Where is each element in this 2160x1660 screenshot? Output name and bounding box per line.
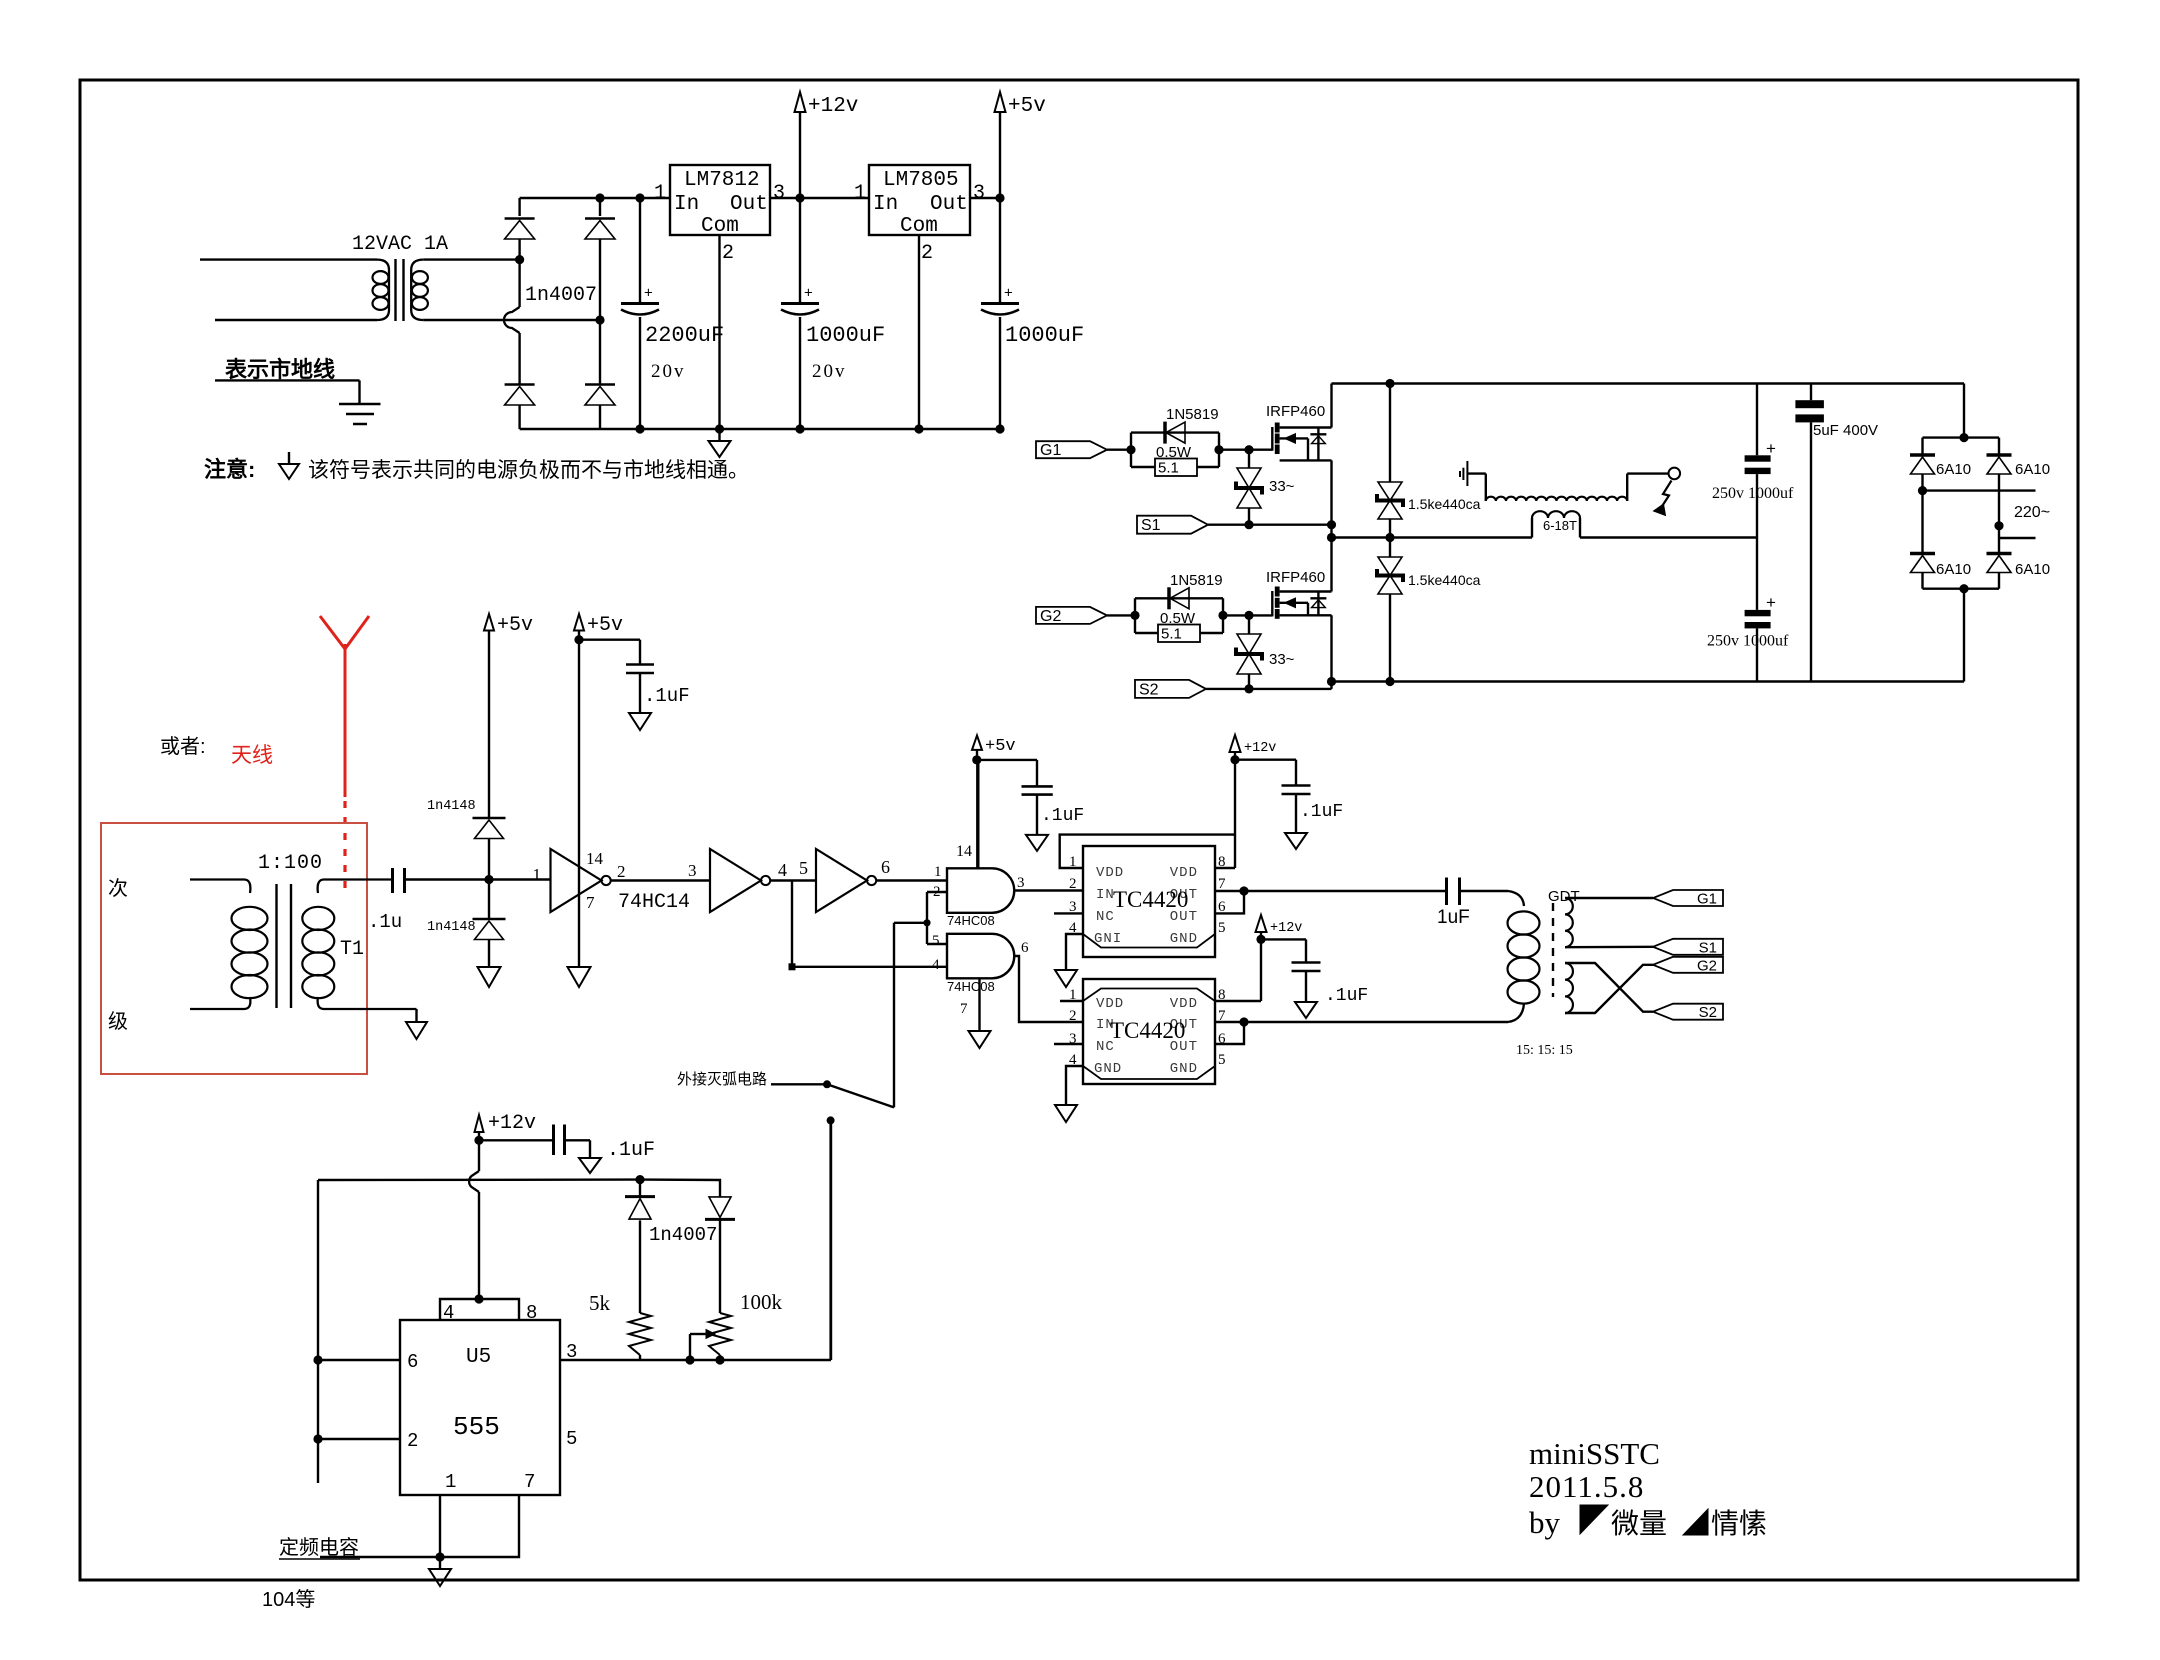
svg-text:6A10: 6A10 (1936, 561, 1971, 578)
svg-text:+5v: +5v (497, 614, 533, 637)
pin 3 output (560, 1359, 831, 1361)
svg-text:1: 1 (934, 864, 942, 880)
555 ground arrow (439, 1557, 441, 1569)
svg-text:4: 4 (932, 957, 940, 973)
svg-text:220~: 220~ (2014, 504, 2050, 521)
svg-text:by: by (1529, 1505, 1561, 1540)
gate network 2: 1N5819 parallel 5.1 (1135, 572, 1223, 643)
svg-text:1.5ke440ca: 1.5ke440ca (1408, 496, 1481, 512)
svg-text:IRFP460: IRFP460 (1266, 569, 1325, 586)
svg-text:+: + (1766, 593, 1776, 612)
svg-text:5: 5 (566, 1428, 577, 1450)
wire AC input bottom lead (215, 319, 377, 321)
svg-text:250v 1000uf: 250v 1000uf (1712, 485, 1794, 502)
svg-text:.1uF: .1uF (607, 1139, 655, 1162)
node bottom rail start (1327, 677, 1336, 686)
svg-text:VDD: VDD (1096, 996, 1124, 1012)
U7 pin4 gnd (1066, 1066, 1083, 1105)
regulator U2 LM7805 (869, 165, 970, 235)
node gate network 2 right (1218, 611, 1227, 620)
wire LM7812 com to ground rail (718, 235, 720, 429)
TVS 1.5ke440ca upper (1389, 384, 1391, 483)
inverter U3C (816, 849, 867, 912)
bridge rectifier right column (599, 198, 601, 216)
node S2/TVS (1244, 684, 1253, 693)
node +12v rail (795, 193, 804, 202)
wire S1 (1208, 524, 1332, 526)
svg-text:2200uF: 2200uF (645, 323, 724, 348)
node S1/TVS (1244, 520, 1253, 529)
bypass ground arrow (629, 713, 651, 730)
svg-text:1: 1 (445, 1471, 456, 1493)
wire to MOSFET Q2 gate (1223, 614, 1272, 616)
capacitor .1uF 555 bypass (479, 1125, 655, 1163)
svg-text:6A10: 6A10 (1936, 461, 1971, 478)
power arrow +5v clamp rail (484, 614, 494, 631)
svg-text:3: 3 (566, 1341, 577, 1363)
wire 555 left feedback vertical (317, 1180, 319, 1483)
svg-text:+5v: +5v (985, 737, 1016, 756)
GDT secondary 2 (1565, 963, 1573, 1013)
svg-text:5.1: 5.1 (1161, 626, 1182, 643)
pin 6 stub (318, 1359, 400, 1361)
capacitor C1 2200uF 20v (639, 198, 641, 304)
svg-text:LM7812: LM7812 (684, 169, 760, 192)
svg-text:GDT: GDT (1548, 888, 1580, 905)
svg-text:5uF 400V: 5uF 400V (1813, 422, 1878, 439)
svg-text:5: 5 (1218, 920, 1226, 936)
svg-text:6A10: 6A10 (2015, 461, 2050, 478)
svg-text:104等: 104等 (262, 1588, 315, 1611)
node mid rail (1327, 533, 1336, 542)
wire DC- bottom rail (520, 428, 1000, 430)
svg-text:100k: 100k (740, 1290, 783, 1314)
driver U6 TC4420 (1083, 846, 1215, 957)
capacitor bank vertical (1756, 384, 1758, 456)
svg-text:U5: U5 (466, 1346, 491, 1369)
svg-text:6-18T: 6-18T (1543, 518, 1577, 533)
diode 6A10 upper-right (1998, 438, 2000, 454)
tesla secondary ground (1460, 461, 1486, 501)
svg-text:250v 1000uf: 250v 1000uf (1707, 633, 1789, 650)
svg-text:4: 4 (443, 1302, 454, 1324)
74HC08 gnd wire (978, 978, 980, 1031)
wire HV bottom rail (1332, 680, 1965, 682)
svg-text:VDD: VDD (1096, 865, 1124, 881)
U7 internal vdd link (1083, 989, 1215, 1002)
U6 pin8 stub (1215, 867, 1235, 869)
svg-text:NC: NC (1096, 909, 1115, 925)
svg-text:5k: 5k (589, 1291, 611, 1315)
wire up to gates (893, 923, 895, 1108)
node gate network 2 left (1130, 611, 1139, 620)
svg-text:+12v: +12v (488, 1112, 536, 1135)
diode 6A10 lower-left (1910, 552, 1935, 556)
svg-text:VDD: VDD (1170, 865, 1198, 881)
GDT core dashed (1552, 903, 1554, 997)
wire to MOSFET Q1 gate (1219, 449, 1272, 451)
pickup box (red) (101, 823, 367, 1074)
node secondary top / bridge left mid (515, 255, 524, 264)
svg-text:6A10: 6A10 (2015, 561, 2050, 578)
power arrow +5v 74HC08 (972, 735, 982, 750)
svg-text:5: 5 (1218, 1052, 1226, 1068)
555 bottom gnd connector (440, 1495, 519, 1557)
svg-text:1n4007: 1n4007 (525, 284, 597, 307)
diode D2 top-right 1n4007 (585, 217, 615, 220)
svg-text:6: 6 (881, 857, 890, 877)
svg-text:.1uF: .1uF (1325, 986, 1368, 1006)
svg-text:1n4148: 1n4148 (427, 799, 476, 814)
svg-text:33~: 33~ (1269, 478, 1295, 495)
74HC14 ground arrow (568, 967, 591, 987)
capacitor C3 1000uF (999, 112, 1001, 304)
pin 2 stub (318, 1438, 400, 1440)
tesla secondary coil (1486, 497, 1627, 501)
node vcc cap branch (574, 635, 583, 644)
capacitor .1uF (74HC08 bypass) (977, 760, 1084, 835)
node 555 vcc (474, 1136, 483, 1145)
wire LM7805 com (918, 235, 920, 429)
U7 pin2 input from gate2 (1014, 956, 1083, 1022)
svg-text:1: 1 (533, 865, 542, 884)
U6 pin4 gnd (1066, 934, 1083, 970)
svg-text:7: 7 (960, 1001, 968, 1017)
diode D4 bottom-right 1n4007 (585, 383, 615, 386)
svg-text:7: 7 (1218, 876, 1226, 892)
tag G2 input (1036, 607, 1107, 624)
U6 pin7 out (1215, 890, 1244, 892)
svg-text:GND: GND (1170, 931, 1198, 947)
svg-text:1: 1 (854, 182, 866, 205)
U7 internal gnd link (1083, 1066, 1215, 1079)
svg-text:GND: GND (1094, 1061, 1122, 1077)
svg-text:+12v: +12v (1244, 741, 1276, 756)
node TVS chain mid (1385, 533, 1394, 542)
U7 pin3 nc stub (1054, 1043, 1083, 1045)
svg-text:4: 4 (778, 860, 787, 880)
node AC line1 (1918, 486, 1927, 495)
svg-text:.1uF: .1uF (1041, 806, 1084, 826)
node gate network right (1214, 445, 1223, 454)
svg-text:1:100: 1:100 (258, 852, 323, 875)
TVS 33~ (gate clamp 1) (1248, 450, 1250, 468)
capacitor .1uF driver2 bypass (1261, 939, 1368, 1006)
diode 1n4007 (100k branch, down) (709, 1197, 731, 1218)
capacitor .1u coupling (368, 868, 405, 933)
svg-text:该符号表示共同的电源负极而不与市地线相通。: 该符号表示共同的电源负极而不与市地线相通。 (308, 459, 749, 482)
mains bridge 6A10 (1923, 384, 2000, 454)
555 top vcc connector (440, 1299, 519, 1320)
transformer 12VAC 1A (352, 233, 448, 321)
svg-text:G2: G2 (1040, 608, 1061, 625)
capacitor 5uF 400V (1810, 384, 1812, 401)
power arrow +12v driver2 (1256, 915, 1267, 932)
svg-text:33~: 33~ (1269, 651, 1295, 668)
wire inv3 out to and gate (876, 879, 947, 881)
node gate network left (1126, 445, 1135, 454)
wire cap to clamp node (405, 878, 551, 880)
clamp rail upper wire (488, 631, 490, 819)
breakout point (1669, 468, 1681, 480)
antenna (red) (320, 616, 369, 797)
wire DC+ top rail (520, 197, 670, 199)
diode 1n4007 (5k branch) (639, 1180, 641, 1197)
svg-text:5: 5 (799, 858, 808, 878)
svg-text:Out: Out (930, 193, 968, 216)
output riser to switch (830, 1120, 832, 1360)
wire down to 555 out (829, 1120, 831, 1360)
U6 pin3 nc stub (1054, 912, 1083, 914)
earth ground symbol (339, 403, 381, 406)
svg-text:S1: S1 (1699, 939, 1717, 956)
svg-text:.1u: .1u (368, 911, 402, 933)
node diode1 top (635, 1175, 644, 1184)
svg-text:3: 3 (688, 861, 697, 880)
capacitor .1uF driver1 bypass (1235, 760, 1343, 833)
node gate/TVS junction (1244, 445, 1253, 454)
potentiometer 100k (709, 1313, 731, 1355)
svg-text:TC4420: TC4420 (1113, 887, 1188, 912)
power arrow +12v 555 (475, 1115, 484, 1132)
node TVS chain top (1385, 379, 1394, 388)
sec2 crossed leads (1565, 963, 1653, 1012)
node TVS chain bottom (1385, 677, 1394, 686)
U6 pin2 input wire (1014, 889, 1083, 891)
svg-text:VDD: VDD (1170, 996, 1198, 1012)
svg-text:微量: 微量 (1611, 1508, 1667, 1539)
svg-text:74HC08: 74HC08 (947, 913, 995, 928)
svg-text:级: 级 (108, 1010, 128, 1033)
svg-text:1N5819: 1N5819 (1170, 572, 1223, 589)
gate1 pin2 net (894, 892, 947, 944)
svg-text:74HC14: 74HC14 (618, 891, 690, 914)
svg-text:S2: S2 (1139, 681, 1159, 698)
capacitor 250v 1000uf lower (1745, 610, 1771, 616)
spark arrow (1662, 481, 1672, 508)
wire inv1 out to inv2 (611, 879, 710, 881)
AND gate U4A 74HC08 (947, 868, 1014, 913)
switch blade diagonal (827, 1084, 894, 1107)
node 555 feed (827, 1116, 835, 1124)
wire HV top rail (1332, 382, 1965, 384)
svg-text:.1uF: .1uF (1300, 802, 1343, 822)
AND gate U4B 74HC08 (947, 934, 1014, 979)
diode D3 bottom-left 1n4007 (505, 383, 535, 386)
T1 ground (415, 1009, 417, 1022)
svg-text:1.5ke440ca: 1.5ke440ca (1408, 572, 1481, 588)
node AC line2 (1994, 521, 2003, 530)
svg-text:20v: 20v (812, 361, 847, 382)
svg-text:S1: S1 (1141, 517, 1161, 534)
hop over feedback wire (469, 1171, 479, 1192)
wire S2 (1206, 688, 1332, 690)
svg-text:3: 3 (973, 182, 985, 205)
svg-text:Out: Out (730, 193, 768, 216)
wire transformer secondary top to bridge (423, 258, 519, 260)
wire 1uF to GDT (1460, 890, 1509, 892)
diode 6A10 upper-left (1910, 453, 1935, 457)
svg-text:情愫: 情愫 (1711, 1508, 1767, 1539)
capacitor .1uF (74HC14 bypass) (579, 640, 690, 713)
svg-text:GND: GND (1170, 1061, 1198, 1077)
ground arrow below rail (718, 429, 720, 441)
svg-text:+5v: +5v (587, 614, 623, 637)
svg-text:+: + (804, 285, 813, 302)
svg-text:7: 7 (586, 893, 595, 912)
U7 pin7 out (1215, 1021, 1244, 1023)
diode D1 top-left 1n4007 (505, 217, 535, 220)
svg-text:miniSSTC: miniSSTC (1529, 1436, 1660, 1471)
svg-text:天线: 天线 (231, 744, 273, 767)
power arrow +12v (795, 92, 806, 112)
wire driver2 out to GDT (1244, 1021, 1508, 1023)
U6 pin1 vdd wire (1060, 835, 1235, 868)
primary coil 6-18T (1531, 518, 1533, 538)
antenna dashed lead (red) (343, 801, 346, 888)
svg-text:2: 2 (722, 242, 734, 265)
svg-text:或者:: 或者: (160, 735, 206, 758)
wire AC 220 line1 (1923, 489, 2036, 491)
branch to gate2 pin4 (791, 881, 793, 967)
svg-text:8: 8 (526, 1302, 537, 1324)
svg-text:Com: Com (900, 215, 938, 238)
wire LM7805 out (970, 197, 1000, 199)
gate network 1: 1N5819 parallel 5.1 resistor (1131, 406, 1219, 477)
wire G1 to gate network (1107, 449, 1131, 451)
diode 1n4148 lower (473, 918, 506, 921)
svg-text:IRFP460: IRFP460 (1266, 403, 1325, 420)
column hop over wire (504, 307, 520, 333)
svg-text:3: 3 (1017, 875, 1025, 891)
svg-text:1000uF: 1000uF (1005, 323, 1084, 348)
tag S1 input (1137, 516, 1208, 534)
svg-text:.1uF: .1uF (644, 685, 690, 707)
wire transformer secondary bottom to bridge (423, 319, 600, 321)
nodes on output (685, 1355, 694, 1364)
svg-text:6: 6 (407, 1351, 418, 1373)
svg-text:G2: G2 (1697, 957, 1717, 974)
svg-text:S2: S2 (1699, 1004, 1717, 1021)
svg-text:6: 6 (1021, 940, 1029, 956)
svg-text:20v: 20v (651, 361, 686, 382)
inverter U3A 74HC14 (551, 849, 602, 912)
wire inv2 out to inv3 (770, 879, 816, 881)
power arrow +12v driver1 (1230, 735, 1241, 752)
inverter U3B (710, 849, 761, 912)
node +5v rail (995, 193, 1004, 202)
svg-text:Com: Com (701, 215, 739, 238)
capacitor 250v 1000uf upper (1745, 455, 1771, 461)
clamp ground arrow (478, 967, 501, 987)
U6 pin6 out join (1215, 891, 1244, 913)
svg-text:5: 5 (932, 933, 940, 949)
74HC08 vcc wire (976, 760, 979, 869)
tag G1 output (1653, 890, 1723, 906)
GDT secondary 1 (1565, 898, 1573, 947)
svg-text:14: 14 (956, 843, 972, 860)
svg-text:2: 2 (617, 862, 626, 881)
tag S2 output (1653, 1004, 1723, 1020)
bridge rectifier 1n4007 left column (518, 198, 520, 216)
555 top feedback rail (318, 1180, 720, 1197)
diode 1n4148 upper (473, 817, 506, 820)
svg-text:1n4007: 1n4007 (649, 1224, 717, 1246)
node gate2/TVS junction (1244, 611, 1253, 620)
svg-text:定频电容: 定频电容 (279, 1536, 359, 1559)
wire primary mid rail (1332, 536, 1533, 538)
U6 internal gnd link (1083, 934, 1215, 948)
74HC14 power rail (574, 614, 584, 631)
capacitor C2 1000uF 20v (799, 112, 801, 304)
svg-text:+: + (1766, 439, 1776, 458)
MOSFET Q1 IRFP460 (1266, 384, 1332, 461)
svg-text:+5v: +5v (1008, 95, 1046, 118)
tag S2 input (1135, 680, 1206, 698)
GDT primary (1508, 891, 1540, 1022)
transformer T1 1:100 (190, 852, 417, 1009)
bridge bottom (1923, 588, 2000, 590)
svg-text:1: 1 (654, 182, 666, 205)
svg-text:555: 555 (453, 1412, 500, 1442)
svg-text:3: 3 (773, 182, 785, 205)
svg-text:+: + (644, 285, 653, 302)
svg-text:5.1: 5.1 (1158, 460, 1179, 477)
svg-text:In: In (674, 193, 699, 216)
svg-text:表示市地线: 表示市地线 (225, 357, 335, 382)
svg-text:1uF: 1uF (1437, 907, 1470, 928)
timing cap stub (320, 1556, 440, 1558)
svg-text:7: 7 (524, 1471, 535, 1493)
tag S1 output (1653, 939, 1723, 955)
MOSFET Q2 IRFP460 (1266, 569, 1332, 619)
tag G1 input (1036, 441, 1107, 458)
svg-text:注意:: 注意: (204, 457, 255, 482)
wire AC 220 line2 (1999, 537, 2036, 539)
node clamp (484, 875, 493, 884)
wire AC input top lead (200, 258, 377, 260)
svg-text:次: 次 (108, 877, 128, 900)
U7 pin6 join (1215, 1022, 1244, 1044)
node top rail / 2200uF (635, 193, 644, 202)
diode 6A10 lower-right (1987, 552, 2012, 556)
pot wiper (690, 1333, 706, 1335)
resistor 5k (629, 1313, 651, 1355)
U7 pin1 stub (1060, 1000, 1083, 1002)
svg-text:+12v: +12v (1270, 921, 1302, 936)
wire mid rail to caps (1580, 536, 1757, 538)
regulator U1 LM7812 (670, 165, 770, 235)
arc-quench net (677, 1071, 827, 1088)
svg-text:G1: G1 (1040, 442, 1061, 459)
node top rail / right column (595, 193, 604, 202)
svg-text:外接灭弧电路: 外接灭弧电路 (677, 1071, 767, 1088)
svg-text:2: 2 (407, 1430, 418, 1452)
svg-text:2011.5.8: 2011.5.8 (1529, 1469, 1644, 1504)
svg-text:TC4420: TC4420 (1110, 1018, 1185, 1043)
svg-text:2: 2 (921, 242, 933, 265)
TVS 33~ (gate clamp 2) (1248, 615, 1250, 634)
driver U7 TC4420 (1083, 979, 1215, 1084)
U7 pin8 stub (1215, 1000, 1261, 1002)
svg-text:1N5819: 1N5819 (1166, 406, 1219, 423)
svg-text:74HC08: 74HC08 (947, 979, 995, 994)
svg-text:14: 14 (586, 849, 604, 868)
timer U5 555 (400, 1320, 560, 1495)
wire G2 (1107, 614, 1135, 616)
svg-text:15: 15: 15: 15: 15: 15 (1516, 1043, 1573, 1058)
node bridge right mid (595, 315, 604, 324)
